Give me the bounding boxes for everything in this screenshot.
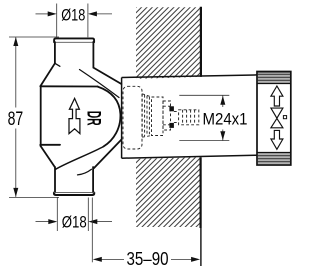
hex tabs (filled) [169, 106, 174, 111]
bottom-left diagonal [40, 146, 54, 167]
ext line bottom [9, 196, 59, 198]
body bottom edge [40, 144, 60, 146]
top-right crease [80, 70, 120, 98]
valve body [40, 38, 121, 195]
top-left crease [55, 63, 60, 66]
valve symbol tick [283, 116, 286, 119]
bottom pipe collar [54, 193, 94, 195]
svg-text:M24x1: M24x1 [203, 109, 248, 128]
top pipe cap [54, 38, 94, 42]
dimension: Ø18 top [36, 4, 113, 38]
ext line top [9, 36, 59, 38]
rib section [141, 94, 143, 137]
dimension: Ø18 bottom [36, 198, 113, 232]
bottom crease [56, 147, 104, 170]
cap down arrow [271, 130, 283, 149]
neck [174, 111, 179, 113]
housing top edge [122, 75, 257, 78]
top pipe left edge [54, 42, 56, 63]
dimension: M24x1 [179, 95, 229, 140]
hex section [163, 101, 171, 130]
svg-text:35–90: 35–90 [127, 249, 169, 269]
bottom-right shoulder [94, 140, 122, 169]
body top edge [40, 85, 97, 87]
top-right shoulder [93, 68, 121, 84]
87 arrows [13, 37, 18, 46]
wall hatching lower [48, 145, 294, 240]
knurl lines bottom [258, 154, 291, 163]
svg-text:Ø18: Ø18 [61, 6, 85, 24]
housing (rough-in body through wall) [122, 75, 257, 158]
housing left edge [121, 78, 123, 159]
chamber arc [98, 87, 121, 147]
cap up arrow [271, 86, 283, 106]
wall hatching upper [48, 0, 294, 90]
thread [179, 110, 199, 125]
dim line [15, 37, 17, 107]
top-left shoulder [40, 63, 55, 86]
cartridge [123, 86, 142, 149]
svg-text:87: 87 [8, 108, 24, 130]
hidden spindle (dashed) [123, 86, 199, 149]
cap (protection cap with knurling) [257, 72, 291, 166]
wall face line lower [200, 157, 202, 228]
flow arrow inside body [69, 98, 80, 133]
housing bottom edge [122, 155, 257, 158]
dimension: 35-90 bottom [92, 198, 192, 263]
svg-text:Ø18: Ø18 [62, 213, 87, 231]
cap valve symbol [271, 108, 283, 128]
bottom pipe right edge [92, 167, 94, 193]
knurl lines top [258, 73, 291, 82]
body left edge [40, 86, 42, 146]
bottom-right corner crease [78, 169, 92, 175]
bottom pipe left edge [54, 167, 56, 193]
dimension: 87 left [9, 37, 59, 197]
top pipe right edge [92, 42, 94, 68]
wall face line upper [200, 7, 202, 77]
step section [152, 97, 164, 136]
svg-text:DR: DR [82, 111, 103, 126]
